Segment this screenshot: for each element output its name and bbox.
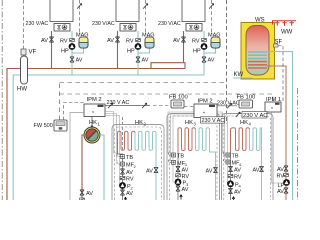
svg-text:AV: AV [126,191,133,197]
boiler 1 supply pipe [51,31,53,69]
pump HP boiler 3 [201,43,208,50]
svg-text:230 V AC: 230 V AC [217,100,240,106]
boiler 1 [50,0,73,31]
HK4 serpentine return [250,128,262,200]
pump HP boiler 2 [135,43,142,50]
pump HP boiler 1 [69,43,76,50]
svg-text:HK: HK [240,120,248,126]
HK3 MF3 [172,160,176,164]
HK1 RV partial [80,198,85,201]
svg-text:230 V AC: 230 V AC [107,100,130,106]
230VAC label IPM1 [242,112,267,119]
svg-text:FB 100: FB 100 [169,95,188,101]
svg-text:TB: TB [126,155,133,161]
HK2 RV [120,177,125,180]
svg-text:AV: AV [182,168,189,174]
IPM1 to LP wire [272,112,283,183]
IPM2 no1 bus wire [64,103,85,121]
HK3 AV lower [176,186,180,191]
svg-text:IPM 2: IPM 2 [87,97,102,103]
svg-text:IPM 1: IPM 1 [266,97,281,103]
VF sensor wire dashed [23,0,25,49]
HK4 flow arrow [232,197,235,202]
HK3 return AV [213,167,217,172]
cold water KW [233,77,252,79]
svg-text:230 V AC: 230 V AC [243,113,268,119]
IPM2 no2 wires to HK4 [217,112,229,184]
heating circuit HK3 panel [167,114,220,201]
svg-text:HW: HW [17,87,27,93]
boiler 2 power dashed [145,0,147,33]
svg-text:RV: RV [126,177,134,183]
svg-text:RV: RV [277,174,285,180]
HK4 AV lower [228,188,232,193]
HK3 supply column line [177,153,179,201]
room controller FB100 no2 [239,100,253,108]
hydraulic separator HW [17,56,28,93]
bus wire B dashed [60,83,274,121]
svg-text:AV: AV [41,38,48,44]
svg-text:AV: AV [173,38,180,44]
HK4 RV [228,175,233,178]
HK2 serpentine supply [118,131,136,152]
HK4 TB [226,153,230,157]
svg-text:AV: AV [234,168,241,174]
HK2 flow arrow [124,197,127,202]
boiler 2 supply pipe [117,31,119,69]
svg-text:AV: AV [182,187,189,193]
svg-text:WS: WS [255,18,265,24]
return manifold (teal) [13,75,202,200]
svg-text:VF: VF [29,50,37,56]
IPM2 no2 bus wire [184,106,194,108]
svg-text:HP: HP [61,49,69,55]
tank coil supply pipe (red) [267,66,286,200]
HK1 return pipe [100,135,104,200]
HK1 supply AV [80,190,84,195]
boiler 1 return pipe [71,31,73,75]
svg-text:MAG: MAG [208,33,221,39]
HK3 serpentine supply [178,128,196,153]
HK4 supply column line [230,153,232,201]
svg-text:RV: RV [234,175,242,181]
warm water taps WW [273,21,297,26]
mixer HK1 [84,126,100,143]
svg-text:AV: AV [146,168,153,174]
svg-text:AV: AV [277,189,284,195]
valve AV supply boiler 3 [181,37,185,42]
HK3 serpentine return [196,128,216,200]
expansion vessel MAG boiler2 [138,48,150,53]
IPM2 no2 power line [217,105,234,107]
module IPM2 no2 [194,104,217,118]
boiler 3 power dashed [211,0,213,33]
HK2 serpentine return [135,131,156,200]
system boundary dash-dot right [297,88,299,200]
HK3 pump P3 [175,179,182,186]
svg-text:KW: KW [234,72,244,78]
svg-text:AV: AV [206,168,213,174]
HK4 serpentine supply [231,128,250,153]
boiler 3 [182,0,205,31]
svg-text:AV: AV [253,168,260,174]
HK2 MF2 [121,162,125,166]
svg-text:HP: HP [127,49,135,55]
valve AV return boiler 2 [136,57,140,62]
230VAC boxed label under IPM2 no2 [201,117,225,123]
svg-text:FB 100: FB 100 [237,95,256,101]
valve AV return boiler 3 [202,57,206,62]
heating circuit HK2 panel [112,125,164,201]
HK4 return AV [259,166,263,171]
HK4 AV [228,166,232,171]
HK2 AV [120,169,124,174]
system boundary dash-dot left [1,0,3,200]
HK3 flow arrow [180,195,183,200]
valve AV supply boiler 2 [115,37,119,42]
svg-text:230 V/AC: 230 V/AC [26,21,49,27]
IPM2 no1 wires to HK1 [70,112,84,200]
boiler 2 [116,0,139,31]
check valve RV boiler 1 [70,39,75,42]
loading pump LP [283,179,290,186]
flow sensor VF [21,49,26,55]
tank upper pipe (teal) [267,52,293,200]
svg-text:AV: AV [277,167,284,173]
supply bridge loop [151,63,185,69]
svg-text:WW: WW [281,30,293,36]
expansion vessel MAG boiler3 [204,48,216,53]
svg-text:MAG: MAG [76,33,89,39]
svg-text:AV: AV [234,190,241,196]
IPM2 no1 power line [105,105,150,107]
svg-text:HK: HK [185,120,193,126]
HK3 TB [172,153,176,157]
check valve RV boiler 3 [202,39,207,42]
module IPM1 [265,102,281,112]
HK4 MF4 [226,160,230,164]
room controller FB100 no1 [171,100,184,108]
svg-text:HK: HK [135,120,143,126]
svg-text:AV: AV [208,58,215,64]
HK2 return AV [154,167,158,172]
svg-text:RV: RV [182,174,190,180]
HK2 supply column line [118,152,123,200]
IPM2 no1 wires to HK2 [105,112,121,186]
IPM2 no2 wires to HK3 [168,112,194,182]
bus wire A dashed [60,82,227,84]
svg-text:230 V/AC: 230 V/AC [92,21,115,27]
svg-text:MAG: MAG [142,33,155,39]
storage tank WS [241,23,275,80]
IPM2 no1 wire to mixer [91,117,93,127]
svg-text:RV: RV [60,38,68,44]
supply manifold (brown) [7,69,185,201]
tank loading pump column [284,166,288,171]
boiler 2 return pipe [137,31,139,75]
svg-text:230 V/AC: 230 V/AC [158,21,181,27]
svg-text:230 V AC: 230 V AC [202,118,225,124]
valve AV supply boiler 1 [49,37,53,42]
boiler 3 supply pipe [183,31,185,63]
svg-text:RV: RV [192,38,200,44]
expansion vessel MAG boiler1 [72,48,84,53]
svg-text:RV: RV [126,38,134,44]
svg-text:AV: AV [142,58,149,64]
svg-text:AV: AV [76,58,83,64]
svg-text:TB: TB [232,154,239,160]
HK3 RV [176,174,181,177]
controller FW 500 [54,120,67,131]
check valve RV boiler 2 [136,39,141,42]
SF sensor wire dashed [278,46,283,102]
HK1 supply pipe [82,135,84,200]
svg-text:HK: HK [89,120,97,126]
svg-text:FW 500: FW 500 [34,123,53,129]
heating circuit HK4 panel [222,114,274,201]
module IPM2 no1 [84,104,105,117]
svg-text:AV: AV [86,191,93,197]
svg-text:AV: AV [107,38,114,44]
HK2 pump P2 [119,182,126,189]
svg-text:AV: AV [126,170,133,176]
boiler 3 return pipe [203,31,205,75]
HK2 TB [121,155,125,159]
svg-text:TB: TB [177,154,184,160]
boiler 1 power dashed [79,0,81,33]
svg-text:HP: HP [193,49,201,55]
valve AV return boiler 1 [70,57,74,62]
svg-text:IPM 2: IPM 2 [198,99,213,105]
HK3 AV [176,166,180,171]
HK4 pump P4 [227,180,234,187]
system boundary dash-dot middle [226,0,228,124]
HK2 AV lower [120,190,124,195]
